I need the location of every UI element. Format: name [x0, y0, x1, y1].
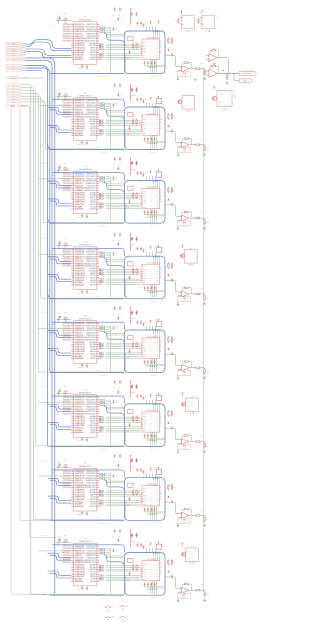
- svg-text:VOL2: VOL2: [206, 148, 209, 150]
- svg-text:SOUND_3: SOUND_3: [153, 367, 155, 372]
- svg-text:C66: C66: [118, 387, 121, 389]
- svg-text:C83 100n: C83 100n: [78, 589, 83, 591]
- ground R37: [204, 227, 206, 228]
- U401 left pin 15: [71, 281, 74, 283]
- U401 left pin 6: [71, 260, 74, 262]
- wire SCLK_1: [106, 202, 141, 204]
- svg-text:C25: C25: [113, 90, 116, 92]
- svg-text:100n 100n: 100n 100n: [146, 366, 152, 368]
- wire SD_1 vertical: [21, 85, 32, 595]
- wire dout stub: [106, 403, 111, 405]
- ground R47: [204, 303, 206, 304]
- power arrow block 6 mid: [158, 393, 160, 394]
- IC22 left pin: [141, 127, 142, 129]
- net label SO3 vertical block 6: [154, 432, 156, 440]
- IC72 left pin: [141, 494, 142, 496]
- U801 left pin 14: [71, 576, 74, 578]
- IC62 left pin: [141, 424, 142, 426]
- svg-text:VCC/3V3: VCC/3V3: [90, 349, 96, 351]
- resistor R83: [167, 559, 169, 560]
- U701 left pin 4: [71, 477, 74, 479]
- U101 right pin 27: [97, 35, 99, 37]
- power flag block 2 mid: [150, 98, 152, 100]
- svg-text:SJ2: SJ2: [126, 605, 128, 607]
- svg-text:MCLK: MCLK: [143, 572, 146, 574]
- bus branch B block 4: [48, 275, 72, 280]
- U701 left pin 15: [71, 503, 74, 505]
- svg-text:PD2/INT0/PCI18: PD2/INT0/PCI18: [75, 105, 85, 107]
- svg-text:PD4/XCK/T0: PD4/XCK/T0: [75, 406, 82, 408]
- capacitor C7b3: [150, 507, 152, 509]
- svg-text:(PCINT22)PD6: (PCINT22)PD6: [63, 339, 71, 341]
- op-amp U83A label box: [178, 593, 191, 598]
- svg-text:EN: EN: [13, 57, 15, 59]
- capacitor C4c: [171, 278, 173, 280]
- svg-text:(PCINT16)PD0: (PCINT16)PD0: [63, 548, 71, 550]
- capacitor C2d: [136, 97, 138, 99]
- IC62 right pin: [160, 415, 162, 417]
- svg-text:GND/VSS: GND/VSS: [90, 280, 96, 282]
- wire aux b: [106, 35, 125, 37]
- wire dout stub: [106, 550, 111, 552]
- wire aux b: [106, 260, 125, 262]
- capacitor C7f: [117, 464, 119, 466]
- resistor R91 feedback: [210, 50, 211, 53]
- capacitor C19: [143, 23, 145, 25]
- svg-text:C14: C14: [115, 27, 118, 29]
- wire: [81, 510, 83, 513]
- U401 left pin 10: [71, 270, 74, 272]
- svg-text:(PCINT14)PC6: (PCINT14)PC6: [63, 249, 71, 251]
- svg-text:SOUND_2: SOUND_2: [151, 144, 153, 149]
- IC42 right pin: [160, 277, 162, 279]
- capacitor C1a: [129, 50, 131, 52]
- IC62 right pin: [160, 422, 162, 424]
- svg-text:PD4/XCK/T0: PD4/XCK/T0: [75, 259, 82, 261]
- svg-text:Cg1: Cg1: [131, 95, 134, 97]
- svg-text:C13 100n: C13 100n: [78, 67, 83, 69]
- U501 left pin 14: [71, 353, 74, 355]
- ground op-amp block 5: [177, 377, 179, 378]
- svg-text:R42: R42: [127, 283, 129, 285]
- wire U9A out: [217, 58, 230, 73]
- U301 right pin 18: [97, 206, 99, 208]
- net label SO1 vertical block 5: [150, 358, 152, 366]
- svg-text:C19: C19: [145, 23, 147, 25]
- U201 left pin 9: [71, 118, 74, 120]
- U601 left pin 2: [71, 399, 74, 401]
- microcontroller U701 body: [74, 468, 97, 511]
- U701 left pin 1: [71, 470, 74, 472]
- svg-text:MCLK: MCLK: [143, 50, 146, 52]
- hierarchical label DAC_BUS: [6, 77, 21, 79]
- op-amp U9A: [209, 54, 217, 62]
- svg-text:R22: R22: [127, 134, 129, 136]
- capacitor C5b3: [150, 360, 152, 362]
- capacitor C44: [113, 252, 115, 254]
- svg-text:SOUND_3: SOUND_3: [153, 68, 155, 73]
- crystal Y7: [128, 483, 133, 487]
- IC32 right pin: [160, 190, 162, 192]
- U201 left pin 7: [71, 114, 74, 116]
- svg-text:SD_2: SD_2: [12, 87, 15, 89]
- U301 left pin 2: [71, 175, 74, 177]
- IC62 right pin: [160, 413, 162, 415]
- net label SO2 vertical block 8: [152, 581, 154, 589]
- op-amp U43A label box: [178, 297, 191, 302]
- IC32 left pin: [141, 197, 142, 199]
- svg-text:C24: C24: [115, 103, 118, 105]
- U101 right pin 32: [97, 24, 99, 26]
- diode D81: [168, 571, 170, 573]
- power arrow Q10: [182, 543, 184, 544]
- capacitor C63: [86, 438, 88, 440]
- wire to audio rail: [200, 589, 204, 591]
- microcontroller U501 body: [74, 321, 97, 364]
- codec IC32 body: [142, 189, 160, 209]
- U201 left pin 3: [71, 104, 74, 106]
- svg-text:(PCINT18)PD2: (PCINT18)PD2: [63, 404, 71, 406]
- net label SD4 vertical block 6: [158, 403, 161, 406]
- wire: [81, 585, 83, 588]
- U701 left pin 6: [71, 482, 74, 484]
- svg-text:GND/VSS: GND/VSS: [90, 52, 96, 54]
- U201 right pin 26: [97, 114, 99, 116]
- wire to audio rail: [200, 217, 204, 219]
- bus branch A block 8: [48, 553, 72, 558]
- svg-text:C44: C44: [115, 252, 118, 254]
- IC52 left pin: [141, 346, 142, 348]
- bus entry block 4: [104, 258, 125, 269]
- IC12 right pin: [160, 47, 162, 49]
- wire under codec a: [144, 140, 165, 142]
- resistor R66: [196, 441, 200, 442]
- net label SD1 vertical block 5: [152, 329, 155, 332]
- ground op-amp block 1: [177, 78, 179, 79]
- capacitor C48: [135, 237, 137, 239]
- svg-text:SCL1: SCL1: [143, 57, 146, 59]
- svg-text:(PCINT20)PD4: (PCINT20)PD4: [63, 36, 71, 38]
- svg-text:GND/VSS: GND/VSS: [90, 581, 96, 583]
- IC52 left pin: [141, 353, 142, 355]
- capacitor C3b2: [147, 210, 149, 212]
- wire stub D_CLK: [22, 52, 26, 54]
- svg-text:SD_7: SD_7: [12, 101, 15, 103]
- transistor Q6 body: [185, 250, 198, 264]
- U101 left pin 8: [71, 40, 74, 42]
- capacitor C2b1: [144, 137, 146, 139]
- net label SD1 vertical block 1: [152, 30, 155, 33]
- wire MISO_1: [106, 132, 141, 134]
- U801 right pin 27: [97, 557, 99, 559]
- resistor R17: [204, 69, 206, 70]
- svg-text:GND/VSS: GND/VSS: [90, 128, 96, 130]
- svg-text:MOSI_1: MOSI_1: [99, 55, 104, 57]
- resistor R54: [171, 336, 173, 337]
- svg-text:Q4_PNP: Q4_PNP: [186, 111, 191, 113]
- svg-text:(PCINT22)PD6: (PCINT22)PD6: [63, 190, 71, 192]
- IC62 right pin: [160, 417, 162, 419]
- svg-text:Q2_PNP: Q2_PNP: [206, 31, 211, 33]
- wire stub SCK: [22, 47, 26, 49]
- svg-text:MEGA48PA-PU: MEGA48PA-PU: [79, 168, 92, 171]
- IC12 right pin: [160, 51, 162, 53]
- trimmer capacitor C22: [64, 94, 67, 97]
- capacitor C4b3: [150, 286, 152, 288]
- wire xtal vert: [57, 167, 59, 174]
- capacitor C4b1: [144, 286, 146, 288]
- net label SD2 vertical block 1: [154, 30, 157, 33]
- capacitor C7d: [136, 468, 138, 470]
- bus entry block 8: [104, 555, 125, 566]
- U101 left pin 12: [71, 49, 74, 51]
- net label SO1 vertical block 1: [150, 59, 152, 67]
- svg-text:C27: C27: [133, 95, 136, 97]
- svg-text:R12: R12: [127, 58, 129, 60]
- net label SO4 vertical block 6: [155, 432, 157, 440]
- U801 right pin 25: [97, 562, 99, 564]
- svg-text:100n 100n: 100n 100n: [146, 440, 152, 442]
- IC62 left pin: [141, 427, 142, 429]
- resistor R72: [136, 489, 138, 490]
- net label SO2 vertical block 7: [152, 506, 154, 514]
- U201 right pin 19: [97, 130, 99, 132]
- U601 right pin 28: [97, 406, 99, 408]
- svg-text:DOUT: DOUT: [143, 421, 146, 423]
- IC72 right pin: [160, 494, 162, 496]
- wire MOSI_1: [106, 204, 141, 206]
- IC32 right pin: [160, 192, 162, 194]
- bus loop around IC302: [124, 181, 165, 224]
- wire under codec b: [147, 512, 166, 514]
- solder jumper SJ1: [107, 606, 110, 607]
- capacitor C89: [143, 545, 145, 547]
- svg-text:Q1_PNP: Q1_PNP: [185, 31, 190, 33]
- capacitor C6b3: [150, 434, 152, 436]
- hierarchical label MISO: [6, 45, 22, 47]
- wire stub D_LAT: [22, 54, 26, 56]
- power VCC arrow block 6: [130, 381, 132, 382]
- U201 left pin 8: [71, 116, 74, 118]
- net label SO3 vertical block 7: [154, 506, 156, 514]
- wire dout stub: [106, 179, 111, 181]
- power arrow block 5 mid: [158, 319, 160, 320]
- svg-text:C76: C76: [118, 461, 121, 463]
- jumper box JP1: [157, 99, 162, 104]
- wire xtal block 6: [57, 393, 72, 395]
- ground op-amp block 8: [177, 599, 179, 600]
- U301 right pin 25: [97, 189, 99, 191]
- wire dout stub: [106, 107, 111, 109]
- U401 left pin 11: [71, 272, 74, 274]
- net label SO4 vertical block 3: [155, 209, 157, 217]
- junction xtal: [57, 244, 60, 247]
- svg-text:(PCINT18)PD2: (PCINT18)PD2: [63, 31, 71, 33]
- resistor R65 feedback: [182, 436, 184, 438]
- power arrow block 7 mid: [158, 467, 160, 468]
- svg-text:SJ3: SJ3: [112, 616, 114, 618]
- net label SO1 vertical block 4: [150, 285, 152, 293]
- svg-text:PD4/XCK/T0: PD4/XCK/T0: [75, 183, 82, 185]
- svg-text:DOUT_03: DOUT_03: [99, 403, 105, 405]
- svg-text:LOUT: LOUT: [156, 195, 159, 197]
- svg-text:Cg3: Cg3: [131, 244, 134, 246]
- svg-text:(PCINT22)PD6: (PCINT22)PD6: [63, 562, 71, 564]
- bus corner block 4: [48, 293, 54, 299]
- capacitor C6d: [136, 394, 138, 396]
- bus entry block 3: [104, 183, 125, 194]
- capacitor C3e: [140, 171, 142, 173]
- U101 right pin 26: [97, 38, 99, 40]
- bus branch A block 2: [48, 108, 72, 113]
- wire to bus wrap top: [155, 27, 157, 31]
- U301 right pin 31: [97, 175, 99, 177]
- transistor Q4 body: [182, 96, 195, 110]
- svg-text:PD4/XCK/T0: PD4/XCK/T0: [75, 555, 82, 557]
- diode D21: [168, 125, 170, 127]
- IC52 right pin: [160, 350, 162, 352]
- U101 left pin 15: [71, 56, 74, 58]
- bus corner block 3: [48, 217, 54, 223]
- net label SD3 vertical block 3: [156, 180, 159, 183]
- wire AIN_01: [106, 43, 141, 45]
- net label SO3 vertical block 4: [154, 285, 156, 293]
- vertical wire rail A: [109, 177, 111, 223]
- codec IC42 body: [142, 264, 160, 284]
- wire SCLK_1: [106, 129, 141, 131]
- svg-text:DOUT: DOUT: [143, 569, 146, 571]
- svg-text:GND: GND: [97, 220, 100, 222]
- resistor R56: [196, 367, 200, 368]
- wire SD_7 vertical: [21, 102, 47, 149]
- svg-text:MEGA48PA-PU: MEGA48PA-PU: [79, 94, 92, 97]
- wire op-amp minus: [178, 71, 181, 78]
- capacitor Cg72: [136, 533, 138, 535]
- net label SO2 vertical block 2: [152, 135, 154, 143]
- svg-text:PB4(MISO/PCI4): PB4(MISO/PCI4): [86, 183, 96, 185]
- capacitor C87: [131, 533, 133, 535]
- U101 right pin 19: [97, 54, 99, 56]
- wire to bus wrap top: [145, 326, 147, 330]
- svg-text:LOUT: LOUT: [156, 271, 159, 273]
- svg-text:PD1/TXD/PCI17: PD1/TXD/PCI17: [75, 326, 84, 328]
- svg-text:SCL1: SCL1: [143, 430, 146, 432]
- U401 left pin 3: [71, 253, 74, 255]
- op-amp pin +: [180, 588, 181, 590]
- svg-text:C22: C22: [64, 89, 66, 91]
- svg-text:DOUT_01: DOUT_01: [99, 252, 105, 254]
- wire SCLK_1: [106, 426, 141, 428]
- svg-text:C74: C74: [115, 474, 118, 476]
- power arrow Q6: [182, 244, 184, 245]
- svg-text:BCLK: BCLK: [143, 43, 146, 45]
- capacitor C8b1: [144, 582, 146, 584]
- capacitor C8b2: [147, 582, 149, 584]
- wire CS_1: [106, 357, 141, 359]
- ground R57: [204, 376, 206, 377]
- wire op-amp out block 3: [190, 217, 196, 219]
- U401 left pin 4: [71, 256, 74, 258]
- resistor R52: [136, 342, 138, 343]
- svg-text:PB4(MISO/PCI4): PB4(MISO/PCI4): [86, 110, 96, 112]
- U201 right pin 29: [97, 107, 99, 109]
- wire dout stub: [106, 329, 111, 331]
- svg-text:GND/VSS: GND/VSS: [90, 131, 96, 133]
- op-amp pin -: [180, 145, 181, 147]
- svg-text:C36: C36: [118, 164, 121, 166]
- U401 left pin 16: [71, 284, 74, 286]
- svg-text:PB5(SCK/PCI5): PB5(SCK/PCI5): [87, 36, 96, 38]
- U401 left pin 8: [71, 265, 74, 267]
- capacitor C21: [59, 92, 61, 94]
- svg-text:C33 100n: C33 100n: [78, 217, 83, 219]
- svg-text:GND/VSS: GND/VSS: [90, 499, 96, 501]
- op-amp U43A: [181, 291, 189, 297]
- svg-text:LRCLK: LRCLK: [143, 562, 147, 564]
- wire to audio rail: [200, 68, 204, 70]
- wire op-amp minus: [178, 220, 181, 227]
- power flag block 1 mid: [150, 22, 152, 24]
- op-amp pin -: [180, 69, 181, 71]
- IC82 right pin: [160, 562, 162, 564]
- net label SD3 vertical block 2: [156, 106, 159, 109]
- U701 right pin 29: [97, 477, 99, 479]
- svg-text:GND: GND: [97, 592, 100, 594]
- svg-text:SD_1: SD_1: [12, 84, 15, 86]
- svg-text:VOL6: VOL6: [206, 445, 209, 447]
- svg-text:DOUT_03: DOUT_03: [99, 30, 105, 32]
- U701 left pin 5: [71, 480, 74, 482]
- net label SO4 vertical block 5: [155, 358, 157, 366]
- svg-text:C86: C86: [118, 536, 121, 538]
- svg-text:SOUND_2: SOUND_2: [151, 441, 153, 446]
- svg-text:PB0(ICP1/CKO): PB0(ICP1/CKO): [87, 100, 97, 102]
- U801 right pin 21: [97, 571, 99, 573]
- U501 right pin 28: [97, 332, 99, 334]
- IC42 right pin: [160, 272, 162, 274]
- U601 right pin 27: [97, 408, 99, 410]
- U701 right pin 28: [97, 480, 99, 482]
- net label SD1 vertical block 6: [152, 403, 155, 406]
- op-amp pin +: [180, 439, 181, 441]
- svg-text:VCC/3V3: VCC/3V3: [90, 430, 96, 432]
- U101 left pin 6: [71, 35, 74, 37]
- wire SCLK_1: [106, 575, 141, 577]
- U201 left pin 10: [71, 121, 74, 123]
- wire under codec a: [144, 437, 165, 439]
- capacitor C83: [86, 586, 88, 588]
- IC22 left pin: [141, 128, 142, 130]
- capacitor C34: [113, 176, 115, 178]
- capacitor C47: [131, 237, 133, 239]
- svg-text:MOSI_1: MOSI_1: [99, 131, 104, 133]
- U201 right pin 31: [97, 102, 99, 104]
- wire to bus wrap top: [151, 27, 153, 31]
- svg-text:MOSI_1: MOSI_1: [99, 428, 104, 430]
- wire aux b: [106, 111, 125, 113]
- svg-text:(PCINT16)PD0: (PCINT16)PD0: [63, 325, 71, 327]
- capacitor C5a: [129, 349, 131, 351]
- U201 right pin 24: [97, 118, 99, 120]
- capacitor C45: [114, 233, 116, 235]
- capacitor C39: [143, 173, 145, 175]
- power stub wire: [130, 237, 132, 250]
- U201 left pin 15: [71, 132, 74, 134]
- resistor R11: [132, 43, 134, 44]
- U301 left pin 7: [71, 187, 74, 189]
- svg-text:DOUT_03: DOUT_03: [99, 106, 105, 108]
- IC22 left pin: [141, 122, 142, 124]
